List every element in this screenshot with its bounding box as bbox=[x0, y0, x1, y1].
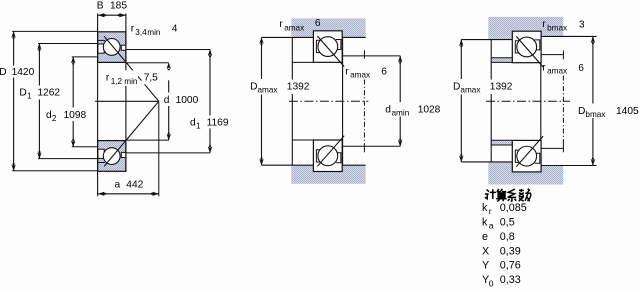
ring gap notch right, bottom section bbox=[121, 152, 126, 157]
dimension line D1 bbox=[38, 44, 40, 86]
shoulder face edge, top bbox=[262, 36, 314, 38]
svg-text:r: r bbox=[279, 19, 283, 30]
svg-text:1: 1 bbox=[27, 92, 32, 101]
shaft diameter dash-dot line bbox=[363, 50, 365, 59]
shaft shoulder bar, bottom right fig bbox=[488, 166, 563, 185]
svg-text:0,76: 0,76 bbox=[500, 260, 521, 272]
bearing outer cross-section, top half bbox=[98, 32, 126, 63]
svg-text:1: 1 bbox=[196, 122, 201, 131]
svg-text:3,4: 3,4 bbox=[135, 28, 147, 37]
svg-text:6: 6 bbox=[381, 66, 387, 77]
bearing section box, right bottom bbox=[512, 140, 541, 172]
contact angle line, bottom bbox=[104, 101, 159, 166]
shoulder step, top left bbox=[488, 36, 512, 39]
svg-text:a: a bbox=[489, 221, 494, 231]
svg-text:0,5: 0,5 bbox=[500, 216, 515, 228]
svg-text:0: 0 bbox=[489, 278, 494, 288]
header: calculation factors (CJK glyphs drawn as strokes) bbox=[485, 189, 531, 202]
svg-text:min: min bbox=[147, 28, 161, 37]
dimension line Damax, right fig bbox=[460, 40, 462, 79]
glyph shu bbox=[519, 189, 531, 201]
svg-text:amin: amin bbox=[392, 109, 410, 118]
svg-text:bmax: bmax bbox=[585, 110, 605, 119]
label r1,2 min 7,5 bbox=[105, 70, 139, 86]
ring gap notch right, top section bbox=[121, 45, 126, 50]
contact angle line, top bbox=[104, 36, 159, 101]
svg-text:1420: 1420 bbox=[12, 67, 35, 78]
extension line ra top bbox=[541, 54, 564, 56]
svg-text:0,8: 0,8 bbox=[500, 231, 515, 243]
extension lines for D bbox=[12, 30, 97, 32]
svg-text:r: r bbox=[106, 72, 110, 83]
svg-text:1028: 1028 bbox=[418, 104, 441, 115]
housing shoulder bar, top bbox=[291, 18, 365, 37]
abutment face line left, right fig bbox=[490, 40, 492, 80]
svg-text:amax: amax bbox=[547, 67, 567, 76]
dimension line Damax bbox=[261, 37, 263, 79]
svg-text:d: d bbox=[385, 104, 391, 115]
dimension line D bbox=[13, 31, 15, 65]
ring gap notch left, top section bbox=[98, 44, 104, 53]
svg-text:2: 2 bbox=[52, 114, 57, 123]
svg-text:6: 6 bbox=[315, 18, 321, 29]
svg-text:Y: Y bbox=[482, 260, 489, 272]
glyph xi bbox=[508, 189, 517, 201]
svg-text:1098: 1098 bbox=[64, 110, 87, 121]
dimension line B bbox=[98, 14, 125, 16]
svg-text:1392: 1392 bbox=[287, 81, 310, 92]
extension line ra bottom bbox=[541, 147, 564, 149]
shaft diameter dash-dot line, right fig bbox=[562, 50, 564, 59]
glyph suan bbox=[496, 189, 506, 201]
bearing outer cross-section, bottom half bbox=[98, 141, 126, 172]
svg-text:7,5: 7,5 bbox=[144, 72, 158, 83]
svg-text:0,085: 0,085 bbox=[500, 202, 527, 214]
extension lines for D1 bbox=[38, 43, 98, 45]
axis centerline, right figure bbox=[486, 100, 570, 102]
shaft shoulder bar, bottom bbox=[291, 165, 365, 183]
glyph ji (calculate) bbox=[485, 189, 496, 199]
svg-text:X: X bbox=[482, 245, 489, 257]
dimension line a bbox=[98, 193, 159, 195]
housing shoulder bar, top right fig bbox=[488, 17, 563, 36]
svg-text:k: k bbox=[482, 216, 488, 228]
bearing section box, middle bottom bbox=[313, 140, 342, 172]
dimension line damin bbox=[399, 56, 401, 102]
bearing section box, middle top bbox=[313, 31, 342, 63]
svg-text:amax: amax bbox=[284, 23, 304, 32]
bearing left face line bbox=[97, 14, 99, 197]
svg-text:amax: amax bbox=[460, 86, 480, 95]
svg-text:r: r bbox=[131, 23, 135, 34]
svg-text:D: D bbox=[578, 106, 585, 117]
svg-text:bmax: bmax bbox=[547, 23, 567, 32]
right face line, right fig bbox=[540, 36, 542, 165]
svg-text:6: 6 bbox=[578, 63, 584, 74]
shoulder face edge, bottom bbox=[262, 164, 314, 166]
svg-text:r: r bbox=[542, 62, 546, 73]
svg-text:4: 4 bbox=[172, 23, 178, 34]
svg-text:d: d bbox=[164, 95, 170, 106]
shoulder face edges bbox=[461, 39, 512, 41]
svg-text:D: D bbox=[0, 67, 7, 78]
svg-text:3: 3 bbox=[579, 20, 585, 31]
svg-text:D: D bbox=[19, 87, 26, 98]
svg-text:min: min bbox=[124, 77, 138, 86]
svg-text:0,39: 0,39 bbox=[500, 245, 521, 257]
svg-text:B: B bbox=[97, 0, 104, 11]
extension lines for damin bbox=[343, 55, 401, 57]
svg-text:185: 185 bbox=[110, 0, 127, 11]
svg-text:1,2: 1,2 bbox=[111, 77, 123, 86]
extension lines for d2 bbox=[72, 56, 98, 58]
svg-text:e: e bbox=[482, 231, 488, 243]
axis centerline, middle figure bbox=[289, 100, 368, 102]
dimension line Dbmax bbox=[592, 37, 594, 104]
svg-text:amax: amax bbox=[258, 86, 278, 95]
bearing axis segment bbox=[95, 100, 159, 102]
ball, bottom section bbox=[103, 148, 120, 165]
svg-text:1000: 1000 bbox=[176, 95, 199, 106]
ball, top section bbox=[103, 39, 120, 56]
bearing right face line bbox=[125, 14, 127, 172]
svg-text:1262: 1262 bbox=[37, 87, 60, 98]
ring gap notch left, bottom section bbox=[98, 149, 104, 158]
dimension line d2 bbox=[72, 57, 74, 108]
svg-text:k: k bbox=[482, 202, 488, 214]
shoulder step, bottom left bbox=[488, 162, 512, 166]
svg-text:r: r bbox=[489, 206, 492, 216]
inner ring face line bottom bbox=[292, 139, 313, 141]
dimension line d bbox=[168, 80, 170, 92]
spacer ring strip, top bbox=[491, 58, 512, 63]
svg-text:1169: 1169 bbox=[207, 118, 229, 129]
extension lines for d (bore) bbox=[126, 62, 169, 64]
svg-text:a: a bbox=[115, 180, 121, 191]
inner ring face line top bbox=[292, 61, 313, 63]
svg-text:D: D bbox=[250, 81, 257, 92]
abutment face line (left) bbox=[291, 37, 293, 79]
right face line bbox=[342, 37, 344, 165]
dimension line d1 bbox=[209, 50, 211, 116]
extension lines for d1 bbox=[126, 49, 210, 51]
svg-text:amax: amax bbox=[350, 71, 370, 80]
extension line from contact point for a bbox=[158, 103, 160, 197]
svg-text:442: 442 bbox=[126, 180, 143, 191]
bearing section box, right top bbox=[512, 31, 541, 63]
svg-text:0,33: 0,33 bbox=[500, 274, 521, 286]
outer ring shoulder line, bottom section bbox=[98, 162, 105, 164]
svg-text:r: r bbox=[542, 19, 546, 30]
spacer ring strip, bottom bbox=[491, 140, 512, 145]
svg-text:1405: 1405 bbox=[616, 106, 639, 117]
svg-text:r: r bbox=[345, 66, 349, 77]
outer ring shoulder line, top section bbox=[98, 39, 105, 41]
svg-text:D: D bbox=[453, 81, 460, 92]
svg-text:1392: 1392 bbox=[490, 81, 513, 92]
